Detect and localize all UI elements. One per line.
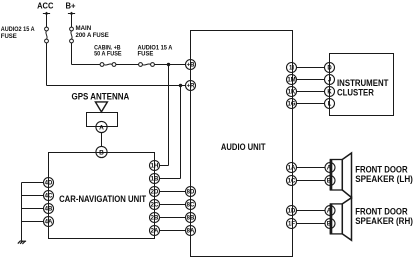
- svg-text:1D: 1D: [288, 209, 296, 215]
- svg-text:1B: 1B: [151, 177, 159, 183]
- svg-text:8C: 8C: [187, 203, 195, 209]
- svg-text:CLUSTER: CLUSTER: [337, 87, 374, 97]
- svg-text:AUDIO UNIT: AUDIO UNIT: [221, 142, 266, 153]
- svg-text:SPEAKER (RH): SPEAKER (RH): [355, 216, 413, 226]
- svg-text:MAIN: MAIN: [76, 25, 92, 32]
- svg-text:J: J: [328, 78, 331, 84]
- svg-text:50 A FUSE: 50 A FUSE: [94, 51, 122, 58]
- svg-text:4A: 4A: [45, 220, 53, 226]
- svg-text:A: A: [327, 209, 332, 215]
- svg-text:FRONT DOOR: FRONT DOOR: [355, 207, 408, 217]
- svg-text:CAR-NAVIGATION UNIT: CAR-NAVIGATION UNIT: [59, 194, 146, 205]
- svg-text:2D: 2D: [151, 190, 159, 196]
- svg-text:+B: +B: [187, 63, 196, 69]
- svg-text:D: D: [327, 66, 332, 72]
- svg-text:1F: 1F: [288, 222, 295, 228]
- svg-text:4D: 4D: [45, 181, 53, 187]
- svg-text:A: A: [327, 166, 332, 172]
- svg-text:B: B: [99, 149, 104, 156]
- svg-text:1G: 1G: [287, 102, 295, 108]
- svg-text:1A: 1A: [288, 166, 296, 172]
- svg-text:8B: 8B: [187, 216, 195, 222]
- svg-text:+R: +R: [187, 84, 196, 90]
- svg-text:1H: 1H: [151, 164, 159, 170]
- svg-text:200 A FUSE: 200 A FUSE: [76, 32, 110, 39]
- svg-text:1M: 1M: [287, 78, 295, 84]
- svg-text:FUSE: FUSE: [138, 51, 154, 58]
- svg-text:FUSE: FUSE: [1, 33, 17, 40]
- svg-text:2C: 2C: [151, 203, 159, 209]
- svg-text:B: B: [327, 222, 332, 228]
- svg-text:1C: 1C: [288, 179, 296, 185]
- svg-text:2B: 2B: [151, 216, 159, 222]
- svg-text:1K: 1K: [288, 90, 296, 96]
- svg-text:1I: 1I: [289, 66, 294, 72]
- svg-text:B+: B+: [66, 1, 76, 11]
- svg-text:8D: 8D: [187, 190, 195, 196]
- svg-text:ACC: ACC: [37, 1, 53, 11]
- svg-text:A: A: [99, 124, 104, 131]
- svg-text:INSTRUMENT: INSTRUMENT: [337, 78, 389, 88]
- svg-text:SPEAKER (LH): SPEAKER (LH): [355, 174, 413, 184]
- svg-text:8A: 8A: [187, 229, 195, 235]
- svg-text:B: B: [327, 179, 332, 185]
- svg-text:4C: 4C: [45, 194, 53, 200]
- svg-text:2A: 2A: [151, 229, 159, 235]
- svg-text:K: K: [327, 90, 332, 96]
- svg-text:L: L: [328, 102, 332, 108]
- svg-text:4B: 4B: [45, 207, 53, 213]
- svg-text:GPS ANTENNA: GPS ANTENNA: [72, 92, 130, 102]
